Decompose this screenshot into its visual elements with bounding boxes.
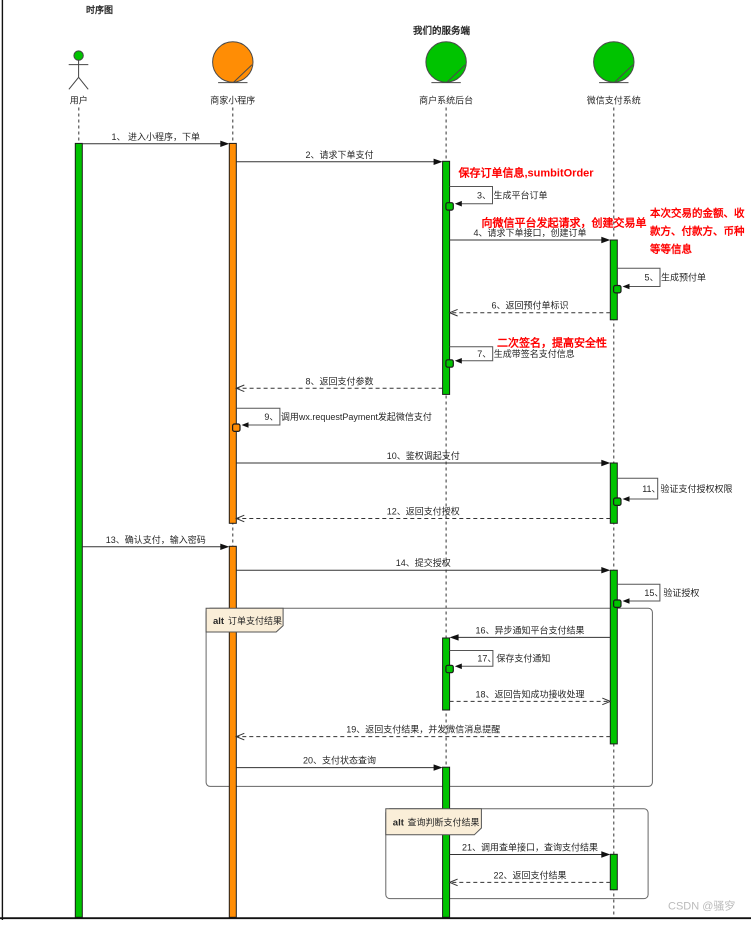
svg-text:13、确认支付，输入密码: 13、确认支付，输入密码 [106,534,206,545]
svg-text:6、返回预付单标识: 6、返回预付单标识 [491,300,568,311]
svg-text:2、请求下单支付: 2、请求下单支付 [305,149,373,160]
svg-text:订单支付结果: 订单支付结果 [228,615,282,626]
svg-text:12、返回支付授权: 12、返回支付授权 [387,506,460,517]
svg-text:21、调用查单接口，查询支付结果: 21、调用查单接口，查询支付结果 [462,842,598,853]
svg-text:18、返回告知成功接收处理: 18、返回告知成功接收处理 [475,688,584,699]
svg-text:查询判断支付结果: 查询判断支付结果 [408,817,480,828]
svg-text:用户: 用户 [70,95,88,106]
svg-text:15、验证授权: 15、验证授权 [644,587,699,598]
svg-text:二次签名，提高安全性: 二次签名，提高安全性 [497,336,607,350]
svg-text:17、保存支付通知: 17、保存支付通知 [477,653,550,664]
svg-text:alt: alt [213,616,225,627]
svg-text:我们的服务端: 我们的服务端 [413,25,471,37]
svg-text:5、 生成预付单: 5、 生成预付单 [645,272,707,283]
svg-text:商户系统后台: 商户系统后台 [419,95,473,106]
svg-text:19、返回支付结果，并发微信消息提醒: 19、返回支付结果，并发微信消息提醒 [346,724,500,735]
svg-text:微信支付系统: 微信支付系统 [587,95,641,106]
svg-text:款方、付款方、币种: 款方、付款方、币种 [649,225,745,238]
svg-text:本次交易的金额、收: 本次交易的金额、收 [650,207,745,220]
svg-text:商家小程序: 商家小程序 [210,95,255,106]
svg-text:向微信平台发起请求，创建交易单: 向微信平台发起请求，创建交易单 [482,216,647,230]
svg-text:CSDN @骚穸: CSDN @骚穸 [668,899,735,913]
svg-text:11、验证支付授权权限: 11、验证支付授权权限 [642,483,732,494]
svg-text:9、 调用wx.requestPayment发起微信支付: 9、 调用wx.requestPayment发起微信支付 [264,411,432,422]
svg-text:alt: alt [393,818,405,829]
svg-text:1、 进入小程序，下单: 1、 进入小程序，下单 [112,131,201,142]
svg-text:保存订单信息,sumbitOrder: 保存订单信息,sumbitOrder [458,166,595,180]
svg-text:10、鉴权调起支付: 10、鉴权调起支付 [387,450,460,461]
svg-text:时序图: 时序图 [86,4,113,15]
svg-text:20、支付状态查询: 20、支付状态查询 [303,755,376,766]
svg-text:3、 生成平台订单: 3、 生成平台订单 [477,189,548,200]
svg-text:等等信息: 等等信息 [649,243,692,256]
svg-text:16、异步通知平台支付结果: 16、异步通知平台支付结果 [475,624,584,635]
svg-text:22、返回支付结果: 22、返回支付结果 [493,869,566,880]
svg-text:8、返回支付参数: 8、返回支付参数 [305,375,373,386]
svg-text:14、提交授权: 14、提交授权 [396,557,451,568]
svg-text:7、 生成带签名支付信息: 7、 生成带签名支付信息 [477,348,575,359]
